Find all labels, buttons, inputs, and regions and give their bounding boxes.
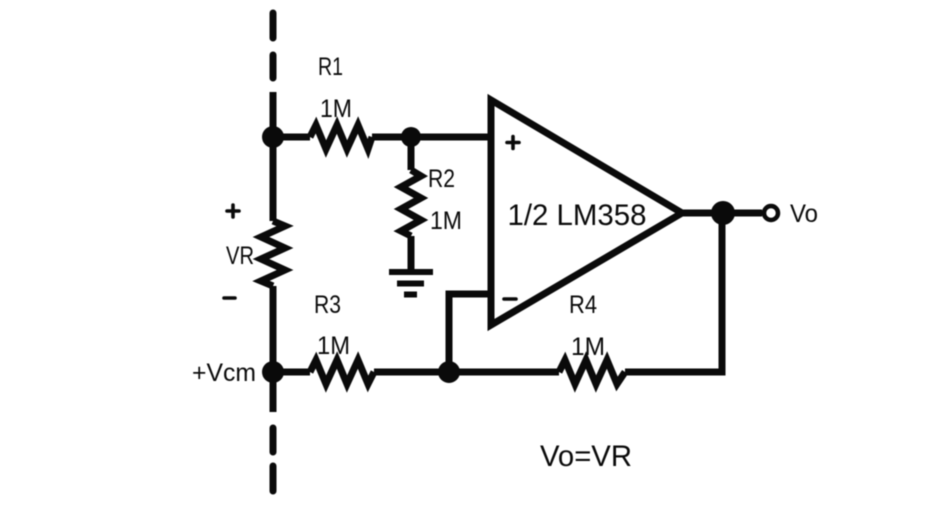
wire: R4 to output (feedback right side) [625, 213, 722, 372]
svg-text:+Vcm: +Vcm [192, 359, 256, 387]
svg-text:VR: VR [226, 242, 254, 270]
svg-text:R1: R1 [318, 53, 343, 81]
wire: R2 to ground [408, 236, 415, 269]
svg-text:1M: 1M [320, 95, 352, 123]
wire: R4 from feedback node [449, 369, 559, 376]
node: output junction [711, 201, 735, 225]
node: feedback junction R3 / R4 / inverting input [438, 361, 460, 383]
pin mark - (inverting input) [504, 297, 516, 301]
ground [389, 272, 433, 295]
wire: node to R2 [408, 137, 415, 170]
polarity - (VR) [224, 296, 235, 300]
wire: left vertical net, lower solid segment [270, 286, 277, 412]
svg-text:R3: R3 [314, 291, 341, 319]
wire: feedback node up to inverting input [449, 294, 491, 372]
node: junction VR bottom / R3 (+Vcm) [262, 361, 284, 383]
node: junction R1 / R2 [401, 127, 421, 147]
terminal Vo (open circle) [764, 206, 778, 220]
wire: op-amp output to node [682, 210, 723, 217]
wire: node to R1 [273, 134, 310, 141]
wire: R3 to feedback node [374, 369, 449, 376]
svg-text:Vo=VR: Vo=VR [540, 440, 632, 473]
svg-text:1M: 1M [430, 207, 462, 235]
svg-text:R2: R2 [428, 165, 455, 193]
polarity + (VR) [227, 205, 239, 217]
resistor R3 [310, 360, 374, 384]
wire: dashed vertical net line (bottom) [270, 428, 277, 491]
wire: output node to terminal [723, 210, 762, 217]
svg-text:R4: R4 [569, 291, 597, 319]
wire: left vertical net, upper solid segment [270, 92, 277, 221]
resistor R4 [559, 360, 625, 384]
svg-text:1M: 1M [317, 332, 350, 360]
resistor R2 [401, 170, 421, 236]
wire: dashed vertical net line (top) [270, 13, 277, 78]
pin mark + (noninverting input) [507, 137, 519, 149]
resistor R1 [310, 125, 372, 149]
wire: node to R3 [273, 369, 310, 376]
source VR (zigzag element) [261, 221, 285, 286]
svg-text:1M: 1M [571, 333, 605, 361]
svg-text:Vo: Vo [790, 200, 818, 228]
op-amp U1 (1/2 LM358) [491, 100, 682, 325]
node: junction of VR top / R1 [262, 126, 284, 148]
wire: R1 to op-amp noninverting input [372, 134, 491, 141]
svg-text:1/2 LM358: 1/2 LM358 [508, 199, 647, 232]
